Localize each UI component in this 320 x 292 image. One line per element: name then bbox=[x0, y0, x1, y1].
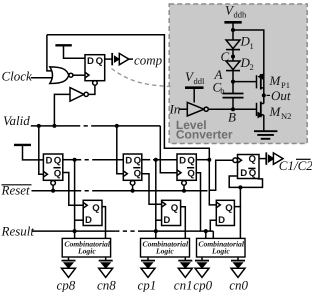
node result-s1 bbox=[73, 229, 77, 233]
svg-text:Q: Q bbox=[54, 168, 62, 179]
svg-text:D: D bbox=[163, 215, 170, 226]
wire FF2 Q chain bbox=[142, 159, 177, 161]
node loop tap bbox=[238, 185, 242, 189]
wire FF4 feedback loop bbox=[229, 176, 262, 187]
svg-text:D: D bbox=[46, 155, 53, 166]
wire NOR to FF clock bbox=[73, 74, 85, 76]
buffer B1 (comp) bbox=[112, 53, 133, 65]
wire logic2 to pad cn1 bbox=[184, 257, 186, 260]
svg-text:Out: Out bbox=[271, 88, 291, 103]
capacitor Cb bbox=[223, 94, 244, 98]
wire Reset line bbox=[32, 190, 208, 192]
wire result end to logic3 bbox=[212, 231, 214, 239]
wire cap2 D branch bbox=[156, 219, 162, 221]
level converter box bbox=[169, 4, 307, 144]
svg-text:Logic: Logic bbox=[77, 247, 96, 256]
logic-1 tie T2 bbox=[14, 145, 43, 160]
node B bbox=[231, 107, 235, 111]
wire cap3 Q up to loop bbox=[234, 187, 240, 206]
pad cn8 bbox=[99, 261, 113, 278]
svg-text:Logic: Logic bbox=[155, 247, 174, 256]
wire Vddh to M_P1 source bbox=[233, 30, 264, 77]
svg-text:2: 2 bbox=[250, 62, 254, 72]
svg-text:Q: Q bbox=[171, 203, 179, 214]
svg-text:cp1: cp1 bbox=[138, 277, 157, 292]
svg-text:Logic: Logic bbox=[211, 247, 230, 256]
flip-flop FF4 (C1/C2) bbox=[233, 154, 259, 179]
level converter title bbox=[176, 118, 233, 142]
wire FF3 Qbar down to result bbox=[196, 173, 200, 231]
wire comp to In (dashed gray) bbox=[112, 69, 171, 87]
svg-text:Clock: Clock bbox=[2, 69, 33, 84]
svg-text:cp8: cp8 bbox=[57, 277, 76, 292]
svg-text:Q: Q bbox=[187, 168, 195, 179]
wire cap1 Q down to logic bbox=[102, 207, 106, 239]
flip-flop FF2 (valid shift) bbox=[123, 154, 142, 185]
logic-1 tie T1 bbox=[55, 45, 85, 58]
logic block 1 bbox=[62, 238, 111, 257]
svg-text:M: M bbox=[269, 104, 282, 119]
node chain1 tap bbox=[73, 158, 77, 162]
buffer B2 (C1/C2) bbox=[266, 152, 283, 164]
node reset-ff1 bbox=[51, 189, 55, 193]
wire In to inverter bbox=[180, 108, 188, 110]
wire chain2 tap down to result bbox=[155, 160, 157, 239]
svg-text:Q: Q bbox=[249, 154, 257, 165]
NOR gate G1 bbox=[50, 67, 73, 84]
wire logic1 to pad cn8 bbox=[105, 257, 107, 260]
wire Clock to NOR bbox=[31, 77, 56, 79]
wire clock feedback rail bbox=[47, 35, 209, 160]
svg-text:D: D bbox=[240, 168, 247, 179]
node rail tap bbox=[207, 158, 211, 162]
supply Vddl label bbox=[185, 69, 205, 86]
node reset-ff3 bbox=[182, 189, 186, 193]
wire rail node to cap3 clock bbox=[209, 160, 216, 205]
svg-text:D: D bbox=[85, 215, 92, 226]
svg-text:Q: Q bbox=[249, 168, 257, 179]
wire rail to NOR input bbox=[47, 35, 56, 71]
flip-flop U1 (comp FF) bbox=[85, 55, 105, 85]
pad cn1 bbox=[178, 261, 192, 278]
pad cp8 bbox=[62, 261, 76, 278]
wire D1 to node C bbox=[232, 50, 234, 61]
label D1 bbox=[240, 34, 254, 51]
node valid-ff1 bbox=[37, 124, 41, 128]
wire Q to comp buffer bbox=[105, 58, 112, 60]
svg-text:D: D bbox=[179, 155, 186, 166]
node reset-ff2 bbox=[131, 189, 135, 193]
wire cap3 D feed bbox=[210, 220, 216, 231]
svg-text:Result: Result bbox=[1, 224, 35, 239]
supply Vddh label bbox=[225, 3, 247, 20]
svg-text:1: 1 bbox=[250, 41, 254, 51]
wire logic3 to pad cn0 bbox=[237, 257, 239, 260]
svg-text:Converter: Converter bbox=[176, 127, 233, 141]
svg-text:ddl: ddl bbox=[194, 76, 206, 86]
node valid-inv bbox=[52, 124, 56, 128]
label Cb bbox=[213, 80, 225, 96]
flip-flop CAP1 (capture) bbox=[83, 200, 102, 226]
wire FF3 reset stem bbox=[183, 185, 185, 191]
wire logic1 to pad cp8 bbox=[68, 257, 70, 260]
wire D2 to node A bbox=[232, 71, 234, 94]
svg-text:Q: Q bbox=[187, 155, 195, 166]
wire chain1 tap down to result bbox=[74, 160, 76, 239]
pad cp1 bbox=[141, 261, 155, 278]
flip-flop CAP3 (capture) bbox=[216, 200, 234, 226]
wire inverter to FF reset bubble bbox=[88, 85, 95, 95]
wire rail node to C1C2 clock bbox=[209, 160, 232, 190]
logic block 3 bbox=[197, 238, 246, 257]
node chain2 tap bbox=[154, 158, 158, 162]
svg-text:Q: Q bbox=[134, 155, 142, 166]
wire Valid to inverter bbox=[54, 94, 70, 126]
inverter U3 (valid) bbox=[70, 88, 88, 102]
wire FF1 Qbar to cap1 clock bbox=[63, 173, 83, 206]
supply Vddl bar bbox=[185, 88, 204, 103]
flip-flop FF1 (valid shift) bbox=[43, 154, 62, 185]
diode D1 bbox=[226, 40, 240, 50]
label Reset bbox=[1, 183, 32, 198]
wire Cb to node B bbox=[232, 98, 234, 110]
flip-flop FF3 (valid shift) bbox=[177, 154, 196, 185]
wire Vddh to D1 bbox=[232, 30, 234, 40]
node C bbox=[231, 55, 235, 59]
wire cap3 Q down to logic3 bbox=[239, 207, 241, 239]
svg-text:Q: Q bbox=[92, 203, 100, 214]
wire FF1 reset stem bbox=[52, 185, 54, 191]
svg-text:cp0: cp0 bbox=[193, 277, 212, 292]
svg-text:N2: N2 bbox=[281, 111, 291, 121]
node result-s3 bbox=[204, 229, 208, 233]
supply Vddh bar bbox=[224, 22, 241, 30]
wire Result line bbox=[32, 230, 214, 232]
svg-text:cn0: cn0 bbox=[229, 277, 248, 292]
transistor M_N2 bbox=[257, 95, 264, 131]
diode D2 bbox=[226, 61, 240, 71]
node valid-ff2 bbox=[115, 124, 119, 128]
svg-text:M: M bbox=[269, 73, 282, 88]
wire cap2 Q down to logic bbox=[181, 207, 186, 239]
wire Valid line bbox=[31, 126, 177, 173]
svg-text:In: In bbox=[169, 102, 181, 117]
logic block 2 bbox=[141, 238, 190, 257]
wire FF2 reset stem bbox=[132, 185, 134, 191]
svg-text:cn1: cn1 bbox=[174, 277, 193, 292]
svg-text:comp: comp bbox=[134, 53, 163, 68]
label M_P1 bbox=[269, 73, 290, 90]
svg-text:Q: Q bbox=[96, 56, 104, 67]
svg-text:b: b bbox=[220, 86, 224, 96]
transistor M_P1 bbox=[257, 73, 264, 95]
pad cp0 bbox=[195, 261, 209, 278]
node Vddh junction bbox=[231, 28, 235, 32]
wire node A to M_P1 gate bbox=[233, 81, 257, 83]
svg-text:D: D bbox=[218, 215, 225, 226]
svg-text:Q: Q bbox=[134, 168, 142, 179]
svg-text:C1/C2: C1/C2 bbox=[279, 158, 312, 173]
wire result to logic3 inputs bbox=[205, 231, 207, 239]
svg-text:D: D bbox=[125, 155, 132, 166]
label C1/C2 bbox=[279, 158, 313, 173]
flip-flop CAP2 (capture) bbox=[162, 200, 181, 226]
wire logic3 to pad cp0 bbox=[201, 257, 203, 260]
wire Valid to FF1 clock bbox=[39, 126, 44, 174]
wire FF1 Q chain bbox=[63, 159, 124, 161]
svg-text:Q: Q bbox=[54, 155, 62, 166]
wire FF3 Q to rail node bbox=[196, 159, 209, 161]
label Out bbox=[267, 88, 291, 103]
ground bbox=[254, 131, 277, 139]
inverter U2 bbox=[187, 102, 208, 116]
node Out bbox=[262, 93, 266, 97]
node A bbox=[231, 80, 235, 84]
wire FF2 Qbar to cap2 clock bbox=[142, 174, 162, 205]
wire cap1 D branch bbox=[75, 219, 84, 221]
wire inverter to M_N2 gate bbox=[208, 108, 256, 110]
label D2 bbox=[240, 55, 254, 72]
wire FF4 Q to buffer bbox=[259, 158, 266, 160]
svg-text:Q: Q bbox=[225, 203, 233, 214]
node result-s2 bbox=[154, 229, 158, 233]
svg-text:Valid: Valid bbox=[3, 113, 30, 128]
svg-text:cn8: cn8 bbox=[97, 277, 116, 292]
svg-text:D: D bbox=[87, 56, 94, 67]
wire logic2 to pad cp1 bbox=[147, 257, 149, 260]
wire Valid to FF2 clock bbox=[117, 126, 124, 174]
svg-text:B: B bbox=[228, 110, 236, 125]
svg-text:ddh: ddh bbox=[234, 10, 248, 20]
pad cn0 bbox=[231, 261, 245, 278]
label M_N2 bbox=[269, 104, 292, 121]
